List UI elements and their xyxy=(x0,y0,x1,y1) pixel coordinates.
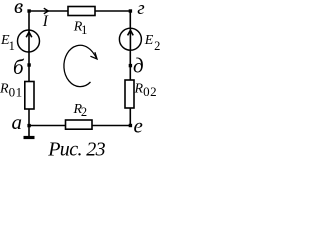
svg-text:д: д xyxy=(133,54,144,78)
svg-text:E1: E1 xyxy=(0,33,15,53)
svg-text:R01: R01 xyxy=(0,82,23,100)
svg-text:е: е xyxy=(134,114,143,138)
svg-text:E2: E2 xyxy=(144,33,161,53)
svg-text:а: а xyxy=(12,110,23,134)
svg-text:R02: R02 xyxy=(134,81,158,99)
svg-text:I: I xyxy=(42,13,49,30)
svg-text:R1: R1 xyxy=(73,20,88,37)
svg-text:в: в xyxy=(14,0,23,18)
svg-text:б: б xyxy=(13,55,25,79)
svg-text:R2: R2 xyxy=(73,102,88,119)
svg-text:Рис. 23: Рис. 23 xyxy=(47,139,105,161)
svg-text:г: г xyxy=(137,0,144,19)
